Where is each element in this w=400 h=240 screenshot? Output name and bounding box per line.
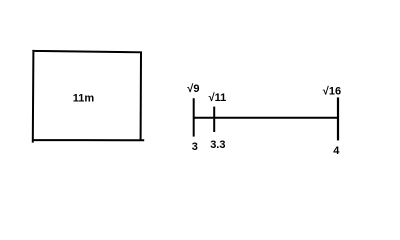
number line (horizontal axis) <box>194 117 338 119</box>
tick mark at sqrt(9) <box>193 98 195 136</box>
svg-text:4: 4 <box>333 145 340 157</box>
tick mark at sqrt(11) <box>213 107 215 132</box>
svg-text:√11: √11 <box>209 92 227 104</box>
svg-text:3.3: 3.3 <box>210 139 225 151</box>
tick mark at sqrt(16) <box>337 97 339 140</box>
svg-text:11m: 11m <box>73 93 95 105</box>
svg-text:√9: √9 <box>187 83 199 95</box>
svg-text:3: 3 <box>192 141 198 153</box>
svg-text:√16: √16 <box>323 85 341 97</box>
square side label 11m <box>73 93 95 105</box>
square (rectangle) outline <box>33 51 143 142</box>
